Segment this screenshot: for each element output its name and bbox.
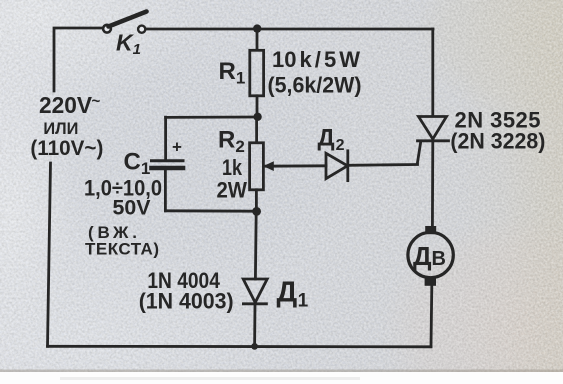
svg-text:~: ~	[92, 93, 101, 110]
svg-text:(2N 3228): (2N 3228)	[450, 129, 545, 154]
svg-text:(5,6k/2W): (5,6k/2W)	[268, 73, 362, 98]
svg-text:(110V~): (110V~)	[30, 137, 103, 160]
svg-text:50V: 50V	[113, 197, 151, 220]
svg-text:1k: 1k	[222, 155, 243, 180]
svg-text:2W: 2W	[217, 178, 248, 203]
svg-text:ТЕКСТА): ТЕКСТА)	[85, 240, 159, 259]
svg-text:k/5W: k/5W	[300, 47, 361, 72]
svg-text:10: 10	[272, 47, 296, 72]
svg-text:(1N 4003): (1N 4003)	[139, 289, 234, 314]
svg-text:+: +	[172, 138, 182, 157]
svg-text:ИЛИ: ИЛИ	[43, 119, 78, 138]
svg-text:220V: 220V	[39, 92, 93, 118]
